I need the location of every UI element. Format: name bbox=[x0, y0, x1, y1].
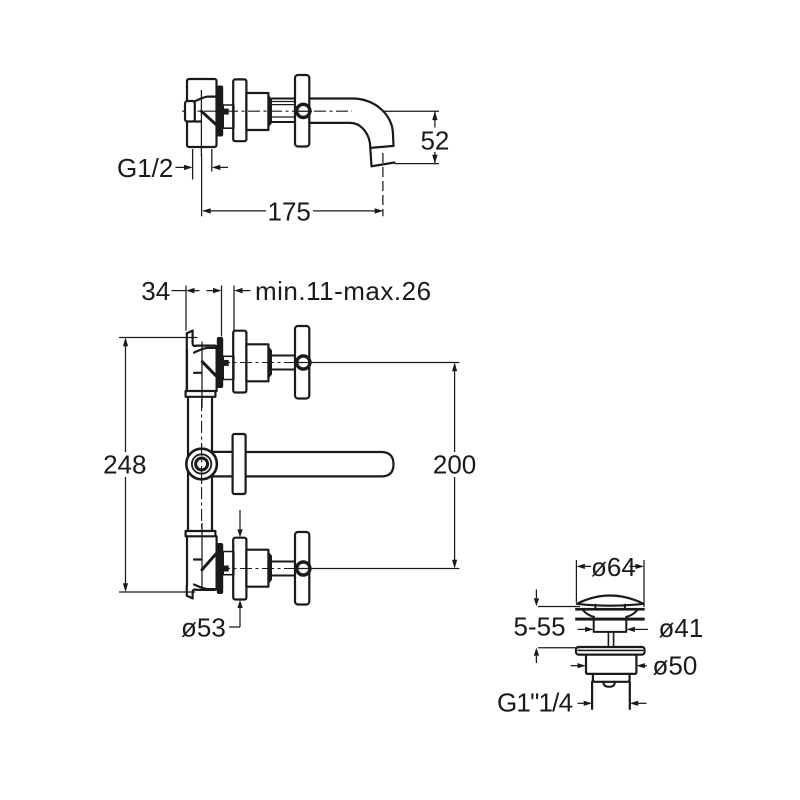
svg-text:ø50: ø50 bbox=[653, 651, 698, 681]
svg-text:ø64: ø64 bbox=[591, 552, 636, 582]
svg-text:52: 52 bbox=[420, 125, 449, 155]
svg-text:200: 200 bbox=[433, 450, 476, 480]
svg-text:min.11-max.26: min.11-max.26 bbox=[255, 276, 432, 306]
svg-text:G1"1/4: G1"1/4 bbox=[497, 687, 573, 717]
svg-text:34: 34 bbox=[141, 276, 170, 306]
svg-text:G1/2: G1/2 bbox=[117, 153, 173, 183]
svg-text:175: 175 bbox=[268, 196, 311, 226]
svg-text:ø53: ø53 bbox=[181, 612, 226, 642]
svg-text:248: 248 bbox=[103, 450, 146, 480]
svg-text:5-55: 5-55 bbox=[514, 612, 566, 642]
svg-text:ø41: ø41 bbox=[659, 613, 704, 643]
